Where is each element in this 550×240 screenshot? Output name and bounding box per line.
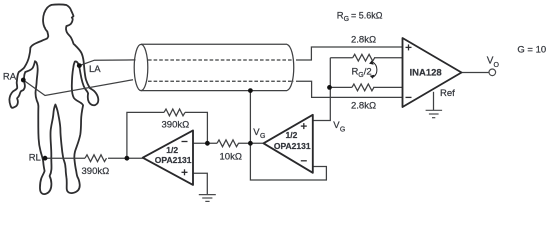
svg-text:G: G — [340, 127, 345, 134]
svg-text:G: G — [260, 133, 265, 140]
svg-text:/2: /2 — [364, 67, 372, 78]
svg-text:RL: RL — [29, 152, 41, 163]
svg-text:OPA2131: OPA2131 — [274, 141, 311, 151]
svg-text:OPA2131: OPA2131 — [155, 155, 192, 165]
svg-text:Ref: Ref — [440, 88, 455, 99]
svg-text:G = 10: G = 10 — [517, 45, 546, 56]
svg-text:2.8kΩ: 2.8kΩ — [351, 101, 376, 112]
svg-text:2.8kΩ: 2.8kΩ — [351, 34, 376, 45]
svg-text:1/2: 1/2 — [166, 145, 178, 155]
svg-text:390kΩ: 390kΩ — [162, 120, 190, 131]
svg-text:O: O — [494, 62, 500, 69]
svg-text:G: G — [344, 16, 349, 23]
svg-text:INA128: INA128 — [410, 67, 442, 78]
svg-text:LA: LA — [89, 64, 101, 75]
svg-text:= 5.6kΩ: = 5.6kΩ — [351, 11, 383, 21]
svg-text:RA: RA — [3, 71, 17, 82]
svg-text:390kΩ: 390kΩ — [82, 166, 110, 177]
svg-text:1/2: 1/2 — [286, 130, 298, 140]
svg-text:10kΩ: 10kΩ — [220, 152, 242, 163]
